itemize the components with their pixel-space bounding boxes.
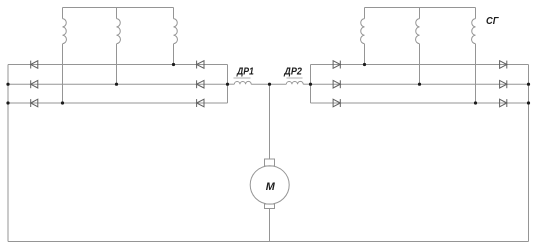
svg-text:ДР1: ДР1 <box>236 67 254 78</box>
svg-text:М: М <box>266 181 276 193</box>
svg-text:СГ: СГ <box>486 16 500 27</box>
svg-text:ДР2: ДР2 <box>283 67 302 78</box>
